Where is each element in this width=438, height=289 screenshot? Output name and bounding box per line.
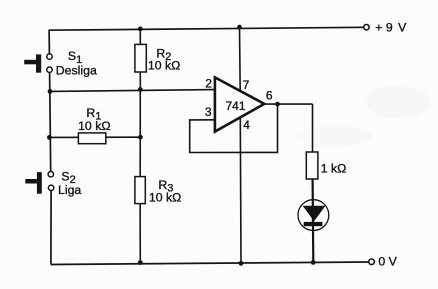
wire output pin6 (264, 103, 312, 105)
svg-text:+ 9: + 9 (375, 20, 393, 34)
resistor 1k (306, 152, 318, 179)
svg-text:V: V (398, 20, 407, 34)
wire pin2 horizontal (50, 90, 215, 92)
terminal 0V (369, 259, 375, 265)
resistor R3 (135, 177, 145, 204)
node R1 left junction (47, 135, 52, 140)
resistor R1 (78, 133, 105, 144)
wire pin3 feedback loop (190, 104, 278, 152)
svg-text:3: 3 (205, 105, 212, 119)
wire R2 bottom to R3 top (139, 72, 141, 177)
node R1 right junction (138, 135, 143, 140)
LED D1 (298, 200, 329, 231)
node pin4 rail junction (239, 261, 244, 266)
scan smudge mid (297, 126, 373, 146)
wire bottom rail (51, 262, 369, 265)
terminal +9V (364, 25, 369, 30)
scan smudge right (366, 86, 430, 118)
node S1 bottom junction (48, 89, 53, 94)
wire resistor to LED to rail (312, 179, 315, 263)
wire output down (312, 104, 314, 152)
wire left column top (48, 30, 50, 55)
svg-text:Liga: Liga (58, 183, 81, 197)
wire left column middle (50, 72, 51, 171)
svg-text:4: 4 (243, 118, 250, 132)
wire R2 top (139, 29, 141, 45)
node R2 top rail junction (138, 27, 143, 32)
wire pin7 (239, 27, 242, 91)
svg-text:7: 7 (243, 78, 250, 92)
node output junction (275, 102, 280, 107)
wire R3 bottom (139, 204, 141, 263)
node R2 pin2 junction (138, 87, 143, 92)
node pin7 rail junction (237, 25, 242, 30)
wire left column bottom (50, 190, 52, 264)
svg-text:1 kΩ: 1 kΩ (321, 161, 347, 175)
svg-text:2: 2 (205, 76, 212, 90)
wire R1 row (49, 136, 140, 138)
svg-text:741: 741 (226, 99, 246, 113)
switch S1 (24, 54, 52, 73)
svg-text:Desliga: Desliga (56, 63, 97, 77)
op-amp U1 741 (215, 77, 264, 131)
svg-text:10 kΩ: 10 kΩ (78, 119, 110, 133)
svg-text:6: 6 (266, 89, 273, 103)
switch S2 (25, 172, 54, 194)
wire top rail (49, 27, 364, 30)
resistor R2 (135, 44, 146, 72)
node R3 bottom rail junction (138, 260, 143, 265)
wire pin4 (239, 118, 242, 263)
svg-text:10 kΩ: 10 kΩ (148, 58, 180, 72)
node LED bottom rail junction (311, 260, 316, 265)
svg-text:10 kΩ: 10 kΩ (149, 191, 181, 205)
svg-text:0 V: 0 V (378, 254, 397, 268)
